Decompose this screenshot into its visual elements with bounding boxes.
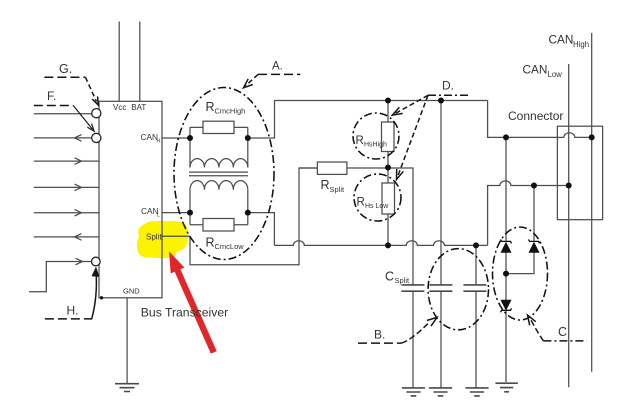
junction dot CANL RHsLow — [385, 242, 391, 248]
svg-text:H: H — [157, 139, 161, 145]
svg-text:Split: Split — [146, 233, 162, 242]
yellow highlight on Split pin — [137, 221, 188, 258]
resistor RHsHigh vertical leads — [387, 101, 389, 169]
junction dot diode2 top — [531, 183, 537, 189]
callout B dash — [358, 342, 402, 344]
resistor RCmcHigh body — [203, 121, 234, 133]
wire cap1 ground stem — [412, 291, 414, 388]
wire Split pin — [162, 235, 190, 237]
svg-text:CAN: CAN — [141, 132, 159, 142]
junction dot CANH bus tap — [589, 134, 595, 140]
ground transceiver — [115, 384, 139, 392]
oval B caps — [428, 249, 488, 330]
arrowhead line 2 — [75, 135, 82, 142]
callout D dash — [428, 94, 469, 96]
ground g2 — [429, 388, 452, 396]
arrowhead line 5 — [75, 209, 82, 216]
choke core lines — [189, 172, 248, 176]
zener Z2 cathode bar — [529, 239, 540, 243]
inductor winding lower — [190, 181, 248, 190]
callout H arrowhead — [92, 269, 98, 277]
wire output line 2 — [34, 137, 92, 139]
svg-text:C: C — [385, 270, 394, 284]
svg-text:CAN: CAN — [549, 32, 574, 46]
callout C arrowhead — [528, 315, 536, 325]
svg-text:A.: A. — [272, 61, 283, 73]
wire CAN_L bus — [568, 64, 570, 387]
oval C diodes — [493, 227, 548, 320]
callout A diagonal — [246, 74, 259, 85]
callout A arrowhead — [244, 79, 253, 88]
callout B arrowhead — [427, 317, 437, 326]
junction dot CANL bus tap — [566, 183, 572, 189]
wire CANL rise to connector — [488, 181, 568, 246]
wire GND pin stem — [126, 298, 128, 383]
arrowhead line 6 — [75, 234, 82, 241]
junction dot box corner — [100, 296, 103, 299]
wire choke right stub top — [247, 127, 249, 167]
callout G dash — [44, 76, 85, 78]
svg-text:GND: GND — [123, 287, 140, 296]
svg-text:R: R — [321, 178, 330, 192]
arrowhead line 4 — [75, 184, 82, 191]
svg-text:Split: Split — [330, 185, 346, 194]
wire split route down-right-up — [190, 168, 317, 265]
resistor RHsLow leads — [387, 168, 389, 245]
capacitor c3 plates — [463, 285, 486, 291]
wire CANL cap drop — [475, 245, 477, 285]
svg-text:Split: Split — [395, 276, 411, 285]
wire CANH pin — [162, 137, 190, 139]
junction dot choke bottom right — [245, 210, 251, 216]
wire choke left stub bottom — [189, 190, 191, 225]
svg-text:F.: F. — [47, 89, 56, 103]
resistor RCmcLow leads — [190, 224, 248, 226]
capacitor c2 plates — [429, 285, 452, 291]
pin circle 1 — [92, 109, 101, 118]
svg-text:R: R — [206, 100, 215, 114]
inductor winding upper — [190, 159, 248, 168]
wire input line 3 — [34, 160, 99, 162]
junction dot choke top left — [187, 135, 193, 141]
svg-text:CmcLow: CmcLow — [215, 242, 245, 251]
zener Z2 triangle — [530, 243, 539, 252]
wire CANH to top rail — [248, 101, 488, 139]
junction dot top rail RHsHigh — [385, 98, 391, 104]
callout F arrowhead — [87, 124, 94, 132]
wire split middle line — [347, 168, 413, 285]
callout D diagonal 1 — [395, 95, 429, 114]
junction dot top rail cap2 — [438, 98, 444, 104]
svg-text:L: L — [157, 213, 160, 219]
junction dot CANL cap3 — [473, 242, 479, 248]
wire RSplit left lead — [299, 167, 317, 169]
wire CANH cap drop — [440, 101, 442, 285]
resistor RHsHigh body — [382, 122, 395, 152]
callout H dash — [45, 318, 92, 320]
circle D1 RHsHigh — [353, 113, 399, 159]
callout D arrowhead 1 — [392, 107, 402, 115]
arrowhead line 7 — [76, 258, 83, 265]
junction dot diode1 top — [503, 134, 509, 140]
wire input line 1 — [34, 113, 92, 115]
wire input line 7 step — [29, 262, 92, 292]
wire CAN_H bus — [591, 33, 593, 372]
resistor RHsLow body — [382, 183, 395, 214]
callout A dash — [258, 73, 300, 75]
wire CANL pin — [162, 212, 190, 214]
wire input line 5 — [34, 212, 99, 214]
junction dot choke top right — [245, 135, 251, 141]
junction dot choke bottom left — [187, 210, 193, 216]
svg-text:Low: Low — [548, 70, 563, 79]
wire Vcc supply vertical — [118, 22, 120, 102]
wire CANL choke out — [248, 213, 275, 246]
svg-text:Hs Low: Hs Low — [365, 203, 389, 210]
zener Z1 triangle — [502, 243, 511, 252]
wire choke right stub bottom — [247, 190, 249, 225]
resistor RCmcHigh leads — [190, 126, 248, 128]
svg-text:BAT: BAT — [131, 103, 146, 112]
zener Z1 cathode bar — [501, 239, 512, 243]
svg-text:B.: B. — [374, 328, 385, 342]
junction dot diode common anode — [503, 271, 509, 277]
svg-text:R: R — [206, 236, 215, 250]
oval A choke — [174, 88, 274, 260]
wire CANL bottom rail with hops — [274, 241, 487, 246]
wire diode2 vertical — [506, 186, 534, 274]
zener Z3 triangle — [502, 300, 511, 309]
wire cap2 ground stem — [440, 291, 442, 388]
wire cap3 ground stem — [475, 291, 477, 388]
svg-text:R: R — [356, 135, 364, 147]
callout F diagonal — [73, 106, 92, 130]
transceiver U1 body — [99, 101, 162, 297]
svg-text:Bus Transceiver: Bus Transceiver — [141, 305, 228, 319]
wire choke left stub top — [189, 127, 191, 167]
svg-text:Vcc: Vcc — [113, 103, 126, 112]
svg-text:R: R — [357, 197, 365, 209]
callout C diagonal — [530, 318, 543, 341]
pin circle 2 — [92, 133, 101, 142]
svg-text:CmcHigh: CmcHigh — [215, 107, 246, 116]
callout F dash — [34, 105, 73, 107]
svg-text:HsHigh: HsHigh — [364, 142, 387, 149]
junction dot split node — [385, 165, 391, 171]
svg-text:G.: G. — [59, 62, 72, 76]
svg-text:Connector: Connector — [508, 109, 563, 123]
callout G arrowhead — [92, 96, 98, 105]
wire input line 4 — [34, 186, 99, 188]
ground g4 — [495, 383, 517, 392]
svg-text:High: High — [573, 40, 589, 49]
svg-text:CAN: CAN — [141, 206, 159, 216]
pin circle 7 — [92, 257, 101, 266]
junction dot pin7 center — [94, 260, 97, 263]
callout D diagonal 2 — [398, 95, 428, 175]
svg-text:C: C — [558, 325, 567, 339]
svg-text:CAN: CAN — [523, 62, 548, 76]
wire diode1 vertical — [505, 137, 507, 382]
callout D arrowhead 2 — [397, 169, 404, 180]
svg-text:H.: H. — [67, 304, 79, 318]
callout B diagonal — [402, 322, 430, 344]
wire output line 6 — [34, 236, 99, 238]
ground g1 — [402, 388, 425, 396]
capacitor CSplit c1 plates — [401, 285, 424, 291]
callout G diagonal — [85, 77, 96, 101]
wire CANH rail drop to connector — [488, 101, 592, 138]
ground g3 — [465, 388, 488, 396]
wire BAT supply vertical — [139, 22, 141, 102]
arrowhead line 3 — [75, 158, 82, 165]
callout C dash — [543, 340, 586, 342]
circle D2 RHsLow — [354, 174, 401, 221]
red annotation arrow — [169, 251, 217, 353]
svg-text:D.: D. — [442, 79, 454, 93]
resistor RCmcLow body — [203, 219, 234, 232]
zener Z3 cathode bar — [501, 308, 512, 312]
connector J1 body — [557, 126, 602, 220]
resistor RSplit body — [317, 162, 347, 174]
callout H arrow shaft — [92, 271, 97, 319]
